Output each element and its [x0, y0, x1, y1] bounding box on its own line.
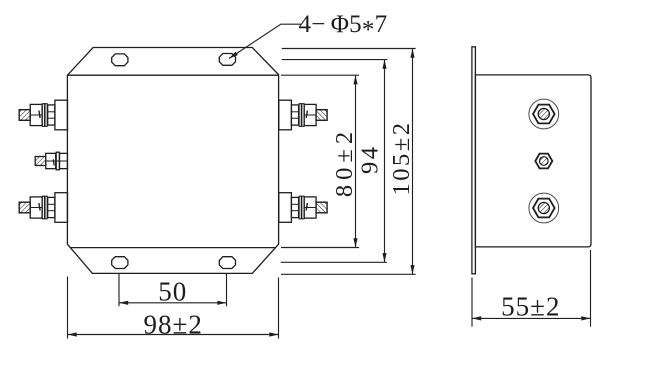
- svg-text:105±2: 105±2: [388, 121, 415, 196]
- svg-text:94: 94: [356, 144, 383, 174]
- svg-text:80±2: 80±2: [331, 127, 358, 197]
- svg-text:98±2: 98±2: [144, 309, 203, 339]
- svg-text:4− Φ5*7: 4− Φ5*7: [299, 11, 388, 44]
- svg-text:50: 50: [158, 277, 187, 307]
- svg-text:55±2: 55±2: [501, 291, 560, 321]
